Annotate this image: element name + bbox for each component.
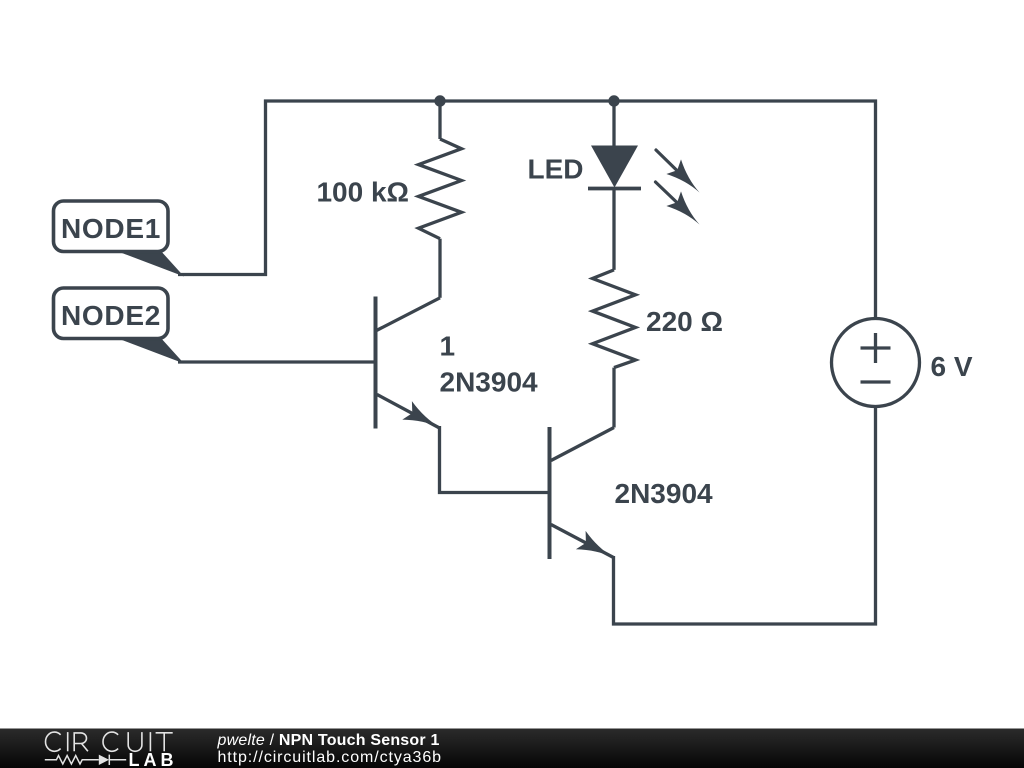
NODE2 rounded box bbox=[54, 288, 169, 339]
R2 zigzag body bbox=[593, 270, 636, 368]
V1 plus sign bbox=[861, 346, 891, 349]
LED light arrow 2 bbox=[656, 182, 679, 204]
footer bar bbox=[0, 729, 1024, 768]
node NODE2 flag bbox=[54, 288, 185, 364]
NODE1 rounded box bbox=[54, 201, 169, 252]
svg-text:pwelte / NPN Touch Sensor 1: pwelte / NPN Touch Sensor 1 bbox=[217, 732, 440, 749]
CircuitLab logo: CIRCUIT wordmark bbox=[46, 732, 173, 751]
svg-text:1: 1 bbox=[440, 331, 456, 362]
R1 bottom lead bbox=[438, 239, 441, 298]
wire from NODE1 tail to left riser bbox=[178, 273, 267, 276]
svg-text:LED: LED bbox=[528, 154, 584, 185]
R2 bottom lead bbox=[612, 368, 615, 428]
LED cathode bar bbox=[588, 187, 641, 191]
wire right drop to V1 positive terminal bbox=[874, 100, 877, 319]
LED D1 bbox=[588, 101, 700, 225]
junction dot at LED anode bbox=[608, 95, 619, 106]
Q2 collector lead bbox=[551, 428, 614, 461]
transistor Q1 2N3904 bbox=[376, 297, 441, 429]
Q1 emitter arrowhead bbox=[402, 401, 440, 428]
R1 top lead bbox=[438, 100, 441, 140]
Q1 emitter lead bbox=[377, 395, 440, 429]
V1 minus sign bbox=[861, 380, 891, 383]
svg-text:100 kΩ: 100 kΩ bbox=[316, 177, 409, 208]
CircuitLab logo: diode triangle bbox=[99, 755, 109, 765]
Q2 base bar bbox=[548, 427, 552, 559]
NODE1 pointer tail bbox=[114, 250, 184, 277]
CircuitLab logo: resistor-diode glyph bbox=[45, 755, 126, 765]
R2 top lead bbox=[612, 189, 615, 270]
NODE2 pointer tail bbox=[114, 337, 184, 364]
node NODE1 flag bbox=[54, 201, 185, 277]
svg-text:NODE1: NODE1 bbox=[61, 213, 161, 244]
LED light arrow 1 bbox=[656, 150, 679, 172]
LED triangle bbox=[591, 146, 638, 188]
svg-text:LAB: LAB bbox=[129, 750, 178, 768]
svg-text:http://circuitlab.com/ctya36b: http://circuitlab.com/ctya36b bbox=[218, 749, 442, 766]
Q2 emitter lead bbox=[551, 525, 614, 558]
wire top rail bbox=[264, 99, 877, 102]
svg-text:2N3904: 2N3904 bbox=[440, 367, 539, 398]
svg-text:6 V: 6 V bbox=[931, 351, 973, 382]
Q2 emitter arrowhead bbox=[576, 531, 614, 558]
Q1 base bar bbox=[374, 297, 378, 429]
resistor R1 100 kOhm bbox=[419, 100, 462, 298]
svg-text:NODE2: NODE2 bbox=[61, 300, 161, 331]
LED anode lead bbox=[612, 101, 615, 146]
voltage source V1 6 V bbox=[832, 319, 920, 407]
V1 circle body bbox=[832, 319, 920, 407]
transistor Q2 2N3904 bbox=[550, 427, 615, 559]
wire Q1 emitter to Q2 base bbox=[440, 426, 549, 493]
svg-text:2N3904: 2N3904 bbox=[615, 478, 714, 509]
R1 zigzag body bbox=[419, 139, 462, 239]
svg-text:220 Ω: 220 Ω bbox=[646, 306, 723, 337]
wire from NODE2 tail to Q1 base bbox=[178, 360, 374, 363]
Q1 collector lead bbox=[376, 298, 441, 331]
junction dot at R1 top bbox=[434, 95, 445, 106]
wire left riser bbox=[264, 100, 267, 277]
wire Q2 emitter to bottom rail and V1 negative terminal bbox=[614, 406, 876, 624]
resistor R2 220 Ohm bbox=[593, 189, 636, 428]
